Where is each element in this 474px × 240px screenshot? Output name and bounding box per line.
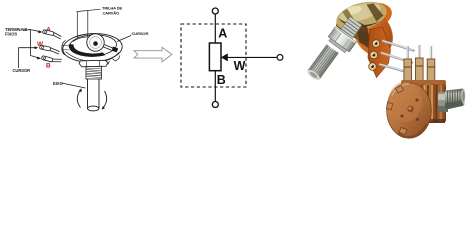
svg-text:W: W xyxy=(234,59,246,73)
terminal lug W xyxy=(39,45,60,54)
svg-text:CURSOR: CURSOR xyxy=(132,31,149,36)
pot1 hex nut xyxy=(326,27,356,55)
label TRILHA DE CARVAO xyxy=(102,6,123,16)
pot2 pin 1 xyxy=(404,46,412,83)
wiper arm lines xyxy=(104,45,115,49)
terminal B pad (circle) xyxy=(212,102,218,108)
pot2 crimp tab bottom xyxy=(399,128,407,135)
label CURSOR (left) xyxy=(13,68,31,73)
pot1 orange housing rim xyxy=(337,0,396,38)
threaded bushing xyxy=(86,67,102,80)
body left tab xyxy=(62,41,66,55)
wire terminal A to resistor xyxy=(214,14,216,43)
svg-text:B: B xyxy=(46,62,51,69)
label TERMINAIS FIXOS xyxy=(5,27,27,37)
wire leader to terminal B xyxy=(31,56,40,59)
wire leader to terminal W xyxy=(19,47,37,49)
pot2 knurled shaft xyxy=(445,89,465,108)
pot1 metal cap xyxy=(333,0,390,36)
pot2 wafer strip behind lugs xyxy=(401,80,446,88)
body inner face xyxy=(69,34,117,58)
resistor element xyxy=(209,43,221,71)
dashed enclosure box xyxy=(181,24,246,87)
pot1 pin 1 xyxy=(383,41,414,51)
pot2 stake marks xyxy=(416,99,419,102)
pot1 knurled shaft xyxy=(306,44,339,82)
wire resistor to terminal B xyxy=(214,71,216,102)
body bottom mounting tabs xyxy=(101,56,120,65)
pot2 phenolic disc xyxy=(387,83,432,138)
pot2 metal can side xyxy=(420,84,446,123)
pot1 eyelet 2 xyxy=(370,51,378,59)
label EIXO xyxy=(53,81,63,86)
body side wall lower arc xyxy=(66,52,119,62)
node label B (red) xyxy=(46,62,51,69)
transition arrow (hollow) xyxy=(134,47,172,62)
pot1 dark body side wedge xyxy=(356,21,372,50)
pot1 eyelet 1 xyxy=(372,40,380,48)
potentiometer body outer shell xyxy=(62,32,123,63)
shaft boss xyxy=(87,34,104,51)
terminal lug B xyxy=(41,54,61,64)
carbon track (dark crescent) xyxy=(69,44,105,57)
svg-text:A: A xyxy=(218,26,227,40)
pot2 crimp tab left xyxy=(387,103,393,110)
label CURSOR (right) xyxy=(132,31,149,36)
rotation arrow right xyxy=(103,91,107,108)
terminal A pad (circle) xyxy=(212,8,218,14)
pot1 under-cap shadow xyxy=(336,19,375,45)
wiper terminal tab xyxy=(112,47,119,53)
terminal lug A xyxy=(42,29,62,39)
wire leader to terminal A xyxy=(31,30,41,32)
pot1 pin 2 xyxy=(382,53,413,63)
pot2 pin 3 xyxy=(427,46,435,84)
pot2 bushing xyxy=(438,92,448,112)
pot1 threaded bushing xyxy=(339,17,362,41)
wiper arrowhead xyxy=(221,53,228,61)
spring washer detail xyxy=(73,37,88,42)
svg-text:CURSOR: CURSOR xyxy=(13,68,31,73)
svg-text:CARVÃO: CARVÃO xyxy=(103,11,120,16)
svg-text:B: B xyxy=(217,73,226,87)
pot1 solder tab board xyxy=(0,0,1,1)
shaft cylinder xyxy=(88,79,100,109)
pot2 center rivet xyxy=(407,106,413,112)
leader lines from TRILHA label xyxy=(77,9,101,38)
node label W (red) xyxy=(37,41,44,48)
node label A (red) xyxy=(46,26,51,33)
wire wiper W xyxy=(227,56,278,58)
wire leader from CURSOR label xyxy=(18,48,20,68)
rotation arrow left xyxy=(77,90,80,108)
wire leader from TERMINAIS to branch xyxy=(23,30,31,56)
pot1 pin 3 xyxy=(380,65,409,73)
pot2 crimp tab top xyxy=(396,86,404,94)
bushing flange nut xyxy=(79,60,108,67)
pot1 orange body side xyxy=(345,3,400,63)
terminal W pad (circle) xyxy=(277,55,283,61)
leader line from CURSOR to wiper xyxy=(117,36,131,42)
pot2 pin 2 xyxy=(416,45,424,83)
svg-text:FIXOS: FIXOS xyxy=(5,32,17,37)
pot1 eyelet 3 xyxy=(369,63,377,71)
leader line from EIXO to shaft xyxy=(62,83,86,88)
